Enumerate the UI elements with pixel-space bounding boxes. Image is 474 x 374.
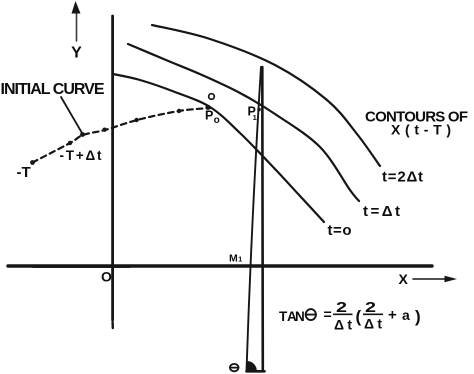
svg-text:t=2Δt: t=2Δt (382, 168, 423, 185)
svg-text:): ) (415, 307, 421, 326)
svg-text:t=Δt: t=Δt (363, 203, 400, 220)
svg-text:INITIAL CURVE: INITIAL CURVE (1, 81, 105, 98)
svg-text:O: O (101, 269, 112, 285)
svg-text:Δt: Δt (364, 316, 382, 332)
svg-text:M1: M1 (229, 252, 242, 264)
svg-text:t=o: t=o (328, 222, 352, 239)
svg-text:Δt: Δt (334, 317, 352, 333)
svg-text:=: = (324, 306, 332, 322)
svg-text:X: X (399, 271, 409, 287)
svg-text:-T+Δt: -T+Δt (60, 148, 103, 163)
svg-text:+: + (388, 307, 397, 324)
svg-text:1: 1 (253, 113, 257, 122)
svg-text:TAN: TAN (279, 309, 305, 324)
svg-text:a: a (402, 307, 410, 323)
svg-text:Y: Y (71, 44, 82, 61)
svg-text:-T: -T (17, 164, 31, 181)
svg-text:(: ( (356, 307, 362, 326)
